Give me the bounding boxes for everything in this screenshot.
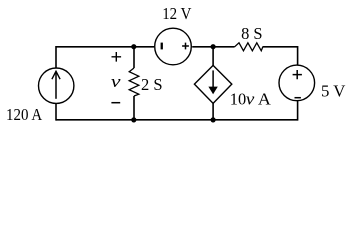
svg-text:12 V: 12 V [162, 4, 192, 23]
junction dot bottom of 2S [131, 117, 136, 122]
voltage source V2 circle (5 V) [279, 65, 315, 101]
svg-text:5 V: 5 V [321, 82, 346, 101]
wire 2S branch bottom stub [133, 96, 135, 120]
svg-text:v: v [111, 72, 121, 91]
node A junction dot (top of 2S) [131, 44, 136, 49]
current source I1 arrow (up, open head) [52, 71, 60, 99]
svg-text:10: 10 [230, 90, 246, 109]
label + (v polarity) [112, 52, 122, 62]
voltage source V1 plus terminal [182, 43, 189, 50]
svg-text:v: v [246, 90, 255, 109]
junction dot bottom of dependent source [211, 117, 216, 122]
wire dependent-source branch bottom stub [212, 103, 214, 120]
wire top middle (12V right to 8S left lead) [192, 46, 234, 48]
label - (v polarity) [111, 102, 120, 104]
svg-text:120 A: 120 A [6, 105, 43, 124]
wire dependent-source branch top stub [212, 47, 214, 66]
node B junction dot (top of dependent source) [211, 44, 216, 49]
current source I1 circle (120 A) [39, 68, 74, 103]
voltage source V1 minus terminal (vertical bar) [161, 43, 163, 50]
voltage source V2 minus terminal [295, 97, 301, 99]
resistor R1 2 S (vertical zigzag) [129, 68, 139, 96]
dependent current source diamond (10v A) [194, 65, 231, 103]
wire bottom rail [56, 119, 298, 121]
dependent source arrow (down, filled head) [208, 70, 217, 94]
svg-text:8 S: 8 S [241, 24, 263, 43]
svg-text:A: A [258, 90, 272, 109]
wire right branch bottom stub [297, 101, 299, 121]
voltage source V2 plus terminal [293, 70, 302, 79]
voltage source V1 circle (12 V) [155, 28, 192, 65]
wire 2S branch top stub [133, 47, 135, 68]
wire top-left with left branch top stub [56, 47, 154, 68]
svg-text:2 S: 2 S [141, 75, 163, 94]
wire top-right with right branch top stub [263, 47, 298, 66]
resistor R2 8 S (horizontal zigzag) [235, 43, 263, 51]
wire left branch bottom stub [55, 103, 57, 120]
